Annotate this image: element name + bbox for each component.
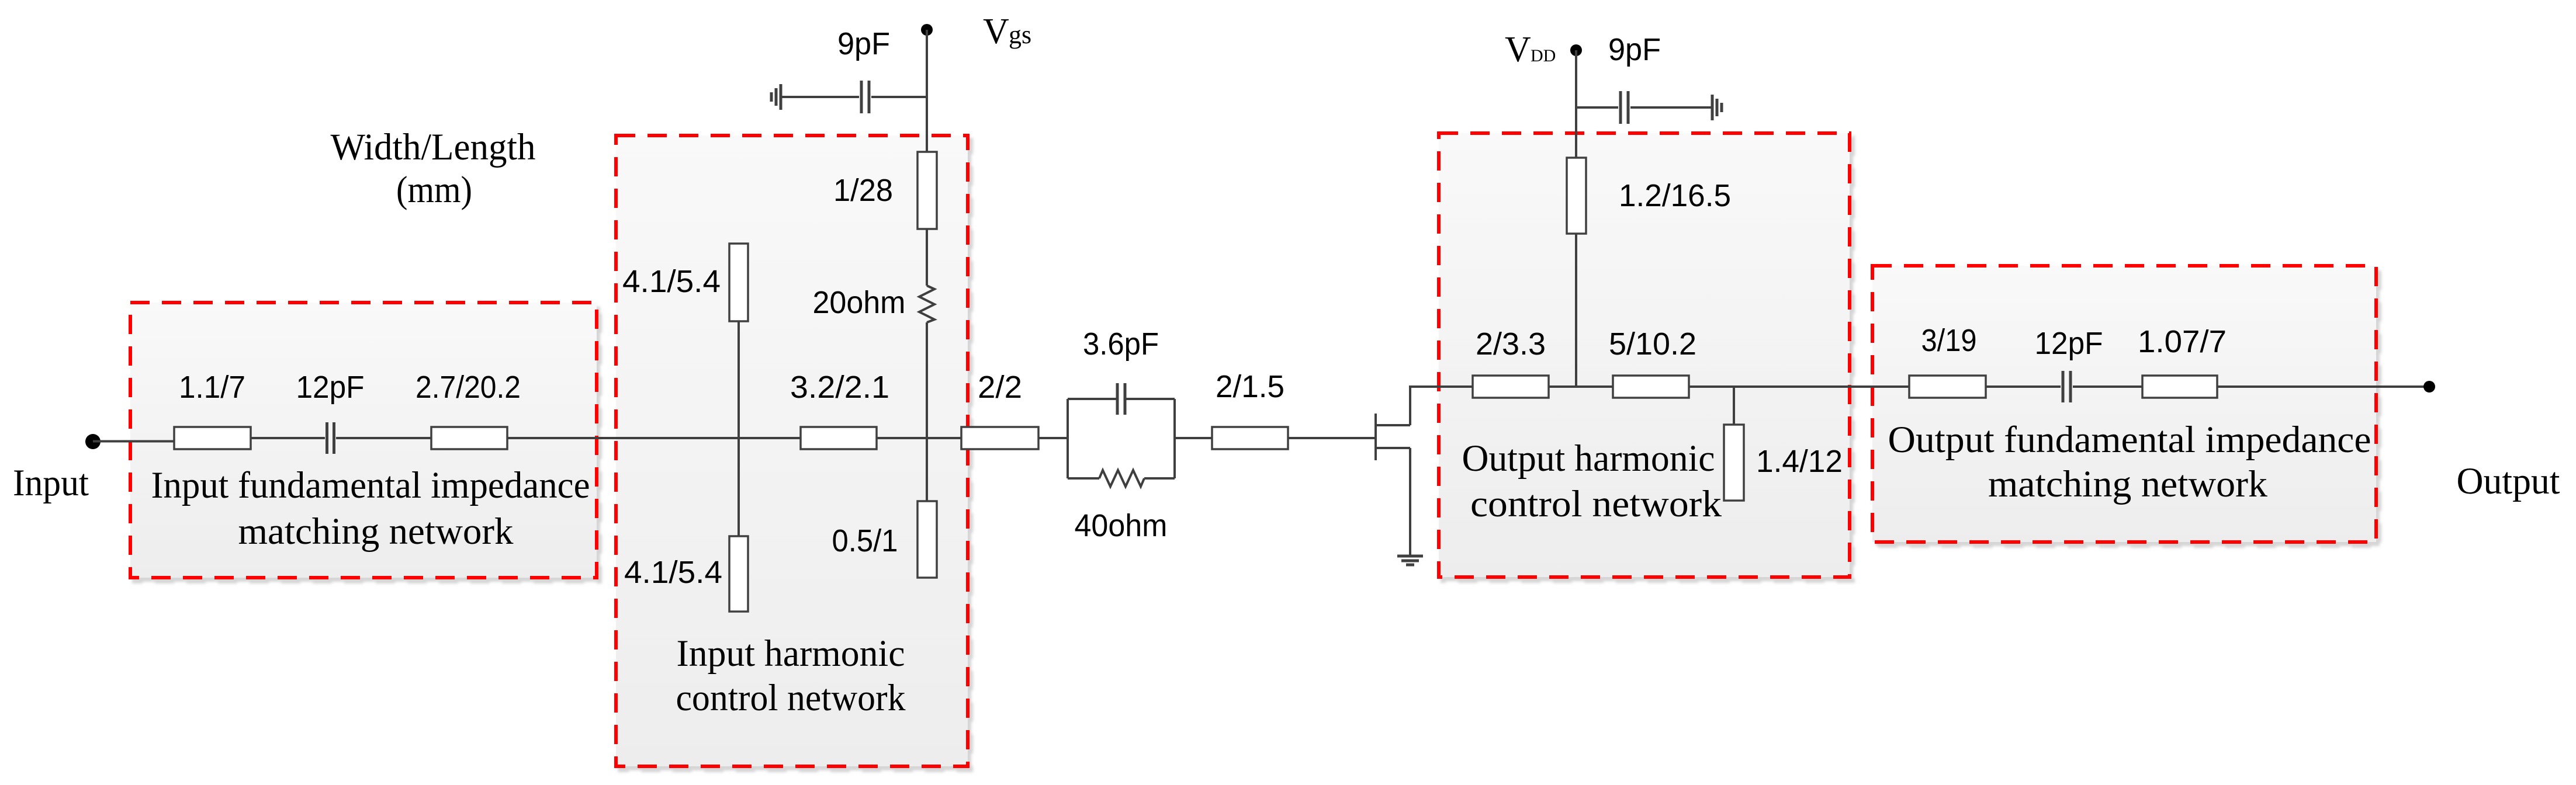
- wire: 1/28 to resistor: [926, 229, 928, 286]
- wire: VDD dot down to 1.2/16.5: [1575, 50, 1577, 158]
- svg-text:matching network: matching network: [1988, 463, 2268, 505]
- wire: TL2 to TL3 across box borders: [507, 437, 801, 439]
- wire: TL9 to output dot: [2217, 385, 2429, 388]
- svg-text:Input fundamental impedance: Input fundamental impedance: [151, 464, 590, 506]
- wire: drop to 1.4/12 stub: [1733, 387, 1735, 425]
- svg-text:Output fundamental impedance: Output fundamental impedance: [1888, 419, 2371, 461]
- open stub 0.5/1: [917, 501, 937, 578]
- svg-text:3.6pF: 3.6pF: [1083, 326, 1159, 362]
- wire: TL4 to RC block: [1038, 437, 1068, 439]
- label: output fundamental box caption: [1888, 419, 2371, 505]
- svg-text:V: V: [983, 12, 1009, 51]
- capacitor 12pF (input): [296, 370, 365, 454]
- ground (gate bias, rotated left): [771, 84, 781, 110]
- svg-text:2/2: 2/2: [978, 370, 1022, 405]
- svg-text:1.1/7: 1.1/7: [179, 370, 245, 405]
- wire: TL3 to TL4: [877, 437, 961, 439]
- svg-text:matching network: matching network: [238, 510, 514, 553]
- svg-text:Output: Output: [2457, 460, 2560, 502]
- svg-text:12pF: 12pF: [2035, 326, 2103, 361]
- svg-text:12pF: 12pF: [296, 370, 365, 405]
- transmission line 1/28: [917, 152, 937, 229]
- svg-text:Input: Input: [13, 462, 89, 504]
- transmission line 3/19: [1909, 376, 1986, 398]
- ground (source): [1397, 556, 1423, 565]
- open stub 4.1/5.4 (upper): [729, 244, 748, 321]
- transmission line 1.2/16.5: [1567, 158, 1586, 234]
- svg-text:(mm): (mm): [396, 169, 472, 211]
- wire: riser to upper 4.1/5.4 stub: [738, 321, 740, 438]
- open stub 4.1/5.4 (lower): [729, 536, 748, 612]
- svg-text:gs: gs: [1009, 20, 1031, 49]
- capacitor 9pF (gate bias decoupling): [782, 26, 927, 113]
- svg-text:Width/Length: Width/Length: [331, 126, 536, 168]
- wire: resistor down through rail to 0.5/1 stub: [926, 322, 928, 501]
- label Vgs: [983, 12, 1031, 51]
- transistor Q1 (FET): [1376, 387, 1473, 556]
- svg-text:control network: control network: [676, 677, 906, 719]
- dashed box: output fundamental impedance matching network: [1872, 266, 2376, 542]
- transmission line 2/1.5: [1212, 427, 1288, 449]
- open stub 1.4/12: [1724, 425, 1744, 501]
- svg-text:control network: control network: [1470, 483, 1722, 525]
- svg-text:Output harmonic: Output harmonic: [1462, 437, 1715, 480]
- transmission line 2.7/20.2: [431, 427, 507, 449]
- svg-text:20ohm: 20ohm: [813, 285, 906, 320]
- svg-text:4.1/5.4: 4.1/5.4: [622, 264, 721, 299]
- transmission line 2/3.3: [1473, 376, 1549, 398]
- wire: TL7 to TL8: [1689, 385, 1909, 388]
- node Vgs: [921, 24, 933, 36]
- svg-text:2/3.3: 2/3.3: [1476, 326, 1546, 362]
- wire: TL5 to transistor gate: [1288, 437, 1374, 439]
- svg-text:5/10.2: 5/10.2: [1609, 326, 1696, 362]
- svg-text:1.07/7: 1.07/7: [2138, 324, 2227, 359]
- wire: RC block to TL5: [1175, 437, 1212, 439]
- ground (drain bias, rotated right): [1712, 95, 1722, 120]
- capacitor 3.6pF in top rail: [1068, 398, 1116, 400]
- svg-text:1/28: 1/28: [833, 173, 893, 208]
- node VDD: [1570, 44, 1582, 56]
- wire: TL1 to C1: [251, 437, 325, 439]
- transmission line 1.07/7: [2142, 376, 2217, 398]
- svg-text:40ohm: 40ohm: [1075, 508, 1168, 543]
- wire: input dot to TL1: [93, 440, 174, 443]
- transmission line 5/10.2: [1613, 376, 1689, 398]
- dashed box: input harmonic control network: [616, 136, 968, 766]
- svg-text:Input harmonic: Input harmonic: [677, 633, 905, 675]
- wire: drop to lower 4.1/5.4 stub: [738, 438, 740, 536]
- svg-text:1.2/16.5: 1.2/16.5: [1619, 178, 1731, 213]
- svg-text:4.1/5.4: 4.1/5.4: [624, 555, 722, 590]
- label VDD: [1505, 30, 1556, 70]
- node Output terminal: [2423, 381, 2435, 392]
- dashed box: input fundamental impedance matching network: [130, 303, 597, 578]
- wire: C2 to TL9: [2073, 385, 2142, 388]
- svg-text:V: V: [1505, 30, 1531, 70]
- svg-text:DD: DD: [1531, 46, 1556, 65]
- left rail: [1067, 399, 1069, 478]
- wire: C1 to TL2: [336, 437, 431, 439]
- wire: TL8 to C2: [1986, 385, 2061, 388]
- label: Width/Length (mm): [331, 126, 536, 211]
- wire: Vgs dot down to 1/28: [926, 30, 928, 152]
- transmission line 2/2: [961, 427, 1038, 449]
- label: input harmonic box caption: [676, 633, 906, 719]
- node Input terminal: [85, 434, 101, 449]
- wire: 1.2/16.5 down to output rail: [1575, 234, 1577, 387]
- svg-text:9pF: 9pF: [1608, 32, 1661, 67]
- resistor 20ohm: [919, 286, 934, 322]
- capacitor 12pF (output): [2035, 326, 2103, 402]
- svg-text:3/19: 3/19: [1921, 323, 1977, 358]
- label: output harmonic box caption: [1462, 437, 1722, 525]
- parallel RC block 3.6pF / 40ohm: [1068, 326, 1175, 543]
- capacitor 9pF (drain bias decoupling): [1576, 32, 1711, 124]
- drain riser: [1410, 387, 1473, 425]
- svg-text:9pF: 9pF: [837, 26, 890, 61]
- transmission line 1.1/7: [174, 427, 251, 449]
- resistor 40ohm in bottom rail: [1068, 477, 1099, 480]
- svg-text:2.7/20.2: 2.7/20.2: [416, 370, 521, 405]
- svg-text:2/1.5: 2/1.5: [1216, 369, 1284, 404]
- wire: TL6 to TL7: [1549, 385, 1613, 388]
- svg-text:1.4/12: 1.4/12: [1756, 444, 1843, 479]
- transmission line 3.2/2.1: [801, 427, 877, 449]
- right rail: [1173, 399, 1176, 478]
- svg-text:3.2/2.1: 3.2/2.1: [790, 370, 889, 405]
- label: input fundamental box caption: [151, 464, 590, 553]
- dashed box: output harmonic control network: [1439, 133, 1850, 577]
- source drop: [1409, 448, 1411, 556]
- svg-text:0.5/1: 0.5/1: [832, 523, 898, 558]
